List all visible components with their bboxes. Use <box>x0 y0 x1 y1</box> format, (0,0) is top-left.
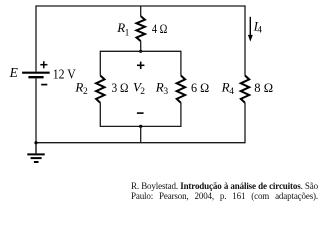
svg-text:6 Ω: 6 Ω <box>191 80 209 95</box>
wire: R2 bottom lead <box>99 103 101 127</box>
battery - sign <box>41 84 47 86</box>
wire: R3 top lead <box>180 51 182 76</box>
wire: R1 top lead <box>140 6 142 16</box>
resistor R4 <box>241 76 249 103</box>
current arrow I4 <box>248 17 253 42</box>
svg-text:8 Ω: 8 Ω <box>254 80 273 95</box>
svg-text:4: 4 <box>229 87 234 97</box>
wire: parallel section bottom rail <box>100 125 181 127</box>
wire: R3 bottom lead <box>180 103 182 127</box>
svg-text:12 V: 12 V <box>53 67 76 82</box>
svg-text:4: 4 <box>257 26 262 36</box>
svg-text:3 Ω: 3 Ω <box>112 80 129 95</box>
V2 - sign <box>137 112 144 114</box>
V2 + sign <box>137 62 144 69</box>
wire: parallel section top rail <box>100 50 181 52</box>
wire: left wire lower (E bottom lead) <box>35 78 37 142</box>
wire: bottom rail <box>36 142 245 144</box>
wire: right wire upper (R4 top lead) <box>244 5 246 75</box>
svg-text:4 Ω: 4 Ω <box>152 21 168 36</box>
wire: center drop to bottom rail <box>140 126 142 142</box>
resistor R1 <box>137 16 145 41</box>
wire: R1 bottom lead <box>140 41 142 51</box>
ground <box>27 143 44 162</box>
wire: R2 top lead <box>99 51 101 76</box>
svg-text:E: E <box>9 65 19 80</box>
citation reference text <box>131 182 318 202</box>
svg-text:3: 3 <box>163 87 168 97</box>
resistor R2 <box>96 76 104 103</box>
wire: top rail <box>36 5 245 7</box>
svg-text:2: 2 <box>83 87 88 97</box>
node: junction dot R1 to parallel top rail <box>139 50 142 53</box>
wire: right wire lower (R4 bottom lead) <box>244 103 246 144</box>
wire: left wire upper (E top lead) <box>35 5 37 71</box>
node: junction dot parallel bottom to center drop <box>139 125 142 128</box>
svg-text:2: 2 <box>140 87 145 97</box>
battery + sign <box>40 61 47 68</box>
battery source E plates <box>22 73 50 78</box>
svg-text:1: 1 <box>125 28 130 38</box>
resistor R3 <box>177 76 185 103</box>
node: junction dot at ground corner <box>34 141 37 144</box>
